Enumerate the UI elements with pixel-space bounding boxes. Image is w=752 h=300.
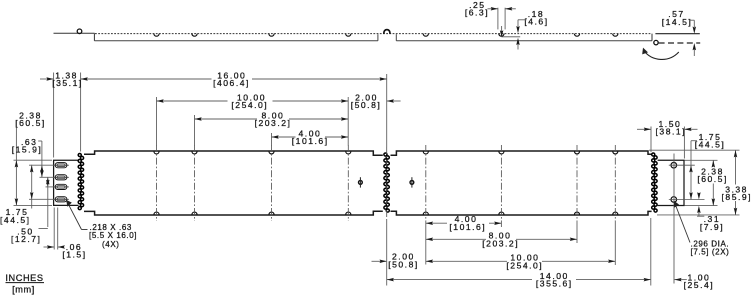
centerline middle joint through bar <box>386 147 388 220</box>
small rivet right of middle joint <box>410 177 414 187</box>
svg-text:[50.8]: [50.8] <box>388 259 419 269</box>
svg-text:[7.9]: [7.9] <box>700 222 724 232</box>
front view: right end plate outline <box>658 160 684 205</box>
svg-text:[60.5]: [60.5] <box>697 174 728 184</box>
dimension 2.00 [50.8] (bottom left) <box>372 260 387 262</box>
svg-text:[101.6]: [101.6] <box>449 222 486 232</box>
top view: right section left end stub <box>395 34 397 41</box>
front view: left hinge coil joint <box>78 153 83 209</box>
top view: middle joint knuckle arch <box>384 30 390 34</box>
front view: edge holes on bar top edge <box>154 151 618 154</box>
extension lines bar top/bottom to right <box>649 149 740 151</box>
extension line flange bottom (y=205.4) <box>14 204 53 206</box>
top view: left section right end stub <box>377 34 379 41</box>
dimension 4.00 [101.6] line <box>272 136 296 138</box>
svg-text:[85.9]: [85.9] <box>722 192 752 202</box>
svg-text:[355.6]: [355.6] <box>536 279 573 289</box>
extension line x=651 (right bar end, top) <box>650 127 652 153</box>
svg-text:[35.1]: [35.1] <box>52 78 83 88</box>
svg-text:[101.6]: [101.6] <box>292 136 329 146</box>
dimension 1.75 [44.5] (slot1-slot4) <box>31 165 33 209</box>
top view: hidden lance edge <box>502 36 521 38</box>
top view: screw head bumps on top edge <box>154 34 618 37</box>
front view: edge holes on bar bottom edge <box>154 212 618 215</box>
slot 4 <box>54 197 69 202</box>
svg-text:[254.0]: [254.0] <box>231 100 268 110</box>
extension line flange top (y=160.2) <box>14 159 53 161</box>
top view: strip bottom edge right section <box>396 40 652 42</box>
front view: main bar section 2 bottom edge <box>391 211 652 215</box>
front view: left flange outline <box>54 160 79 205</box>
dimension 8.00 [203.2] line <box>195 118 258 120</box>
slot size leader note .218 X .63 <box>67 202 81 229</box>
right end plate hole lower (.296 DIA) <box>671 197 677 203</box>
svg-text:[50.8]: [50.8] <box>351 100 382 110</box>
dimension .57 arrows <box>693 20 695 27</box>
front view: main bar section 2 top edge <box>391 151 652 155</box>
svg-text:[254.0]: [254.0] <box>506 260 543 270</box>
svg-text:[60.5]: [60.5] <box>15 118 46 128</box>
top view: right hinge pivot circle <box>654 40 658 44</box>
top view: left flange arm line <box>54 32 95 34</box>
top view: strip left end edge <box>93 33 95 40</box>
svg-text:[44.5]: [44.5] <box>0 215 31 225</box>
front view: main bar section 1 top edge <box>84 151 383 155</box>
dimension 10.00 [254.0] (bottom) <box>426 260 507 262</box>
dimension 1.75 [44.5] (plate holes spacing) <box>690 141 692 200</box>
front view: middle hinge coil joint <box>384 153 389 212</box>
top view: strip hidden top edge (dashed) <box>95 33 651 35</box>
top view: folded-out plate top edge <box>655 33 699 35</box>
extension line middle joint below bar <box>386 220 388 286</box>
dimension .31 [7.9] <box>698 193 700 196</box>
extension line slot4 centerline <box>29 198 55 200</box>
top view: strip right end edge <box>651 34 653 41</box>
svg-text:[14.5]: [14.5] <box>662 17 693 27</box>
plate holes vertical centerline / 1.00 extension <box>673 154 675 284</box>
dimension 1.38 [35.1] <box>40 78 53 80</box>
dimension .18 arrows <box>517 20 519 27</box>
extension line middle joint (x=386.7) above bar <box>386 74 388 147</box>
svg-text:[mm]: [mm] <box>12 285 35 295</box>
extension line slot1 centerline <box>29 164 55 166</box>
dimension 10.00 [254.0] line <box>157 100 228 102</box>
svg-text:[44.5]: [44.5] <box>695 140 726 150</box>
dimension 2.38 [60.5] (plate height) <box>712 160 714 166</box>
dimension 8.00 [203.2] (bottom) <box>426 238 486 240</box>
dimension .06 [1.5] extension lines <box>53 208 55 250</box>
small rivet left of middle joint <box>359 177 363 187</box>
svg-text:[1.5]: [1.5] <box>62 250 86 260</box>
slot 3 <box>54 184 69 189</box>
svg-text:(4X): (4X) <box>102 240 120 249</box>
dimension 3.38 [85.9] (bar height) <box>735 150 737 184</box>
svg-text:[6.3]: [6.3] <box>465 7 489 17</box>
dimension 14.00 [355.6] <box>387 279 532 281</box>
svg-text:[4.6]: [4.6] <box>524 17 548 27</box>
svg-text:INCHES: INCHES <box>5 273 43 283</box>
dimension 4.00 [101.6] (bottom) <box>426 222 447 224</box>
slot 2 <box>54 175 69 180</box>
svg-text:[7.5] (2X): [7.5] (2X) <box>691 247 730 256</box>
dimension 16.00 [406.4] line <box>81 78 212 80</box>
extension lines below bar for right-bar holes <box>425 221 427 265</box>
dimension .50 [12.7] (slot2-slot3) <box>47 177 49 227</box>
hole vertical centerlines <box>157 145 616 221</box>
extension line left flange left edge (x=53.6) <box>53 73 55 158</box>
top view: rotation direction arc arrow <box>644 50 679 59</box>
top view: left hinge knuckle circle <box>77 29 82 34</box>
top view: strip bottom edge left section <box>94 40 378 42</box>
extension lines above bar for holes <box>156 97 158 146</box>
dimension .25 outside arrows <box>488 8 498 10</box>
dimension .06 arrows <box>44 246 54 248</box>
svg-text:[203.2]: [203.2] <box>482 238 519 248</box>
right end plate hole upper (.296 DIA) <box>671 162 677 168</box>
svg-text:[12.7]: [12.7] <box>11 234 42 244</box>
svg-text:[38.1]: [38.1] <box>656 127 687 137</box>
front view: main bar section 1 bottom edge <box>84 211 383 215</box>
dimension .25 center pointer arrow <box>501 26 503 32</box>
svg-text:[25.4]: [25.4] <box>684 280 715 290</box>
extension line slot3 centerline <box>46 186 55 188</box>
extension line slot2 centerline <box>40 176 55 178</box>
svg-text:[406.4]: [406.4] <box>213 78 250 88</box>
extension line x=684.4 (plate right edge, top) <box>683 127 685 159</box>
hole diameter note .296 DIA [7.5] (2X) <box>675 205 690 243</box>
front view: right hinge coil joint <box>652 153 657 212</box>
slot 1 <box>54 163 69 168</box>
svg-text:[5.5 X 16.0]: [5.5 X 16.0] <box>89 231 137 240</box>
dimension 1.50 [38.1] <box>637 128 651 130</box>
extension lines plate top/bottom to right <box>685 159 718 161</box>
extension line left bar start (x=80.6) <box>80 73 82 152</box>
svg-text:[15.9]: [15.9] <box>12 144 43 154</box>
svg-text:[203.2]: [203.2] <box>255 118 292 128</box>
dimension 1.00 [25.4] <box>674 279 686 281</box>
lower hole horizontal centerline <box>669 199 705 201</box>
dimension .25 extension lines <box>497 8 499 30</box>
extension line right bar end (x=650.8) below <box>650 218 652 286</box>
top view: folded-out plate hidden bottom edge (dashed) <box>659 42 701 44</box>
upper hole horizontal centerline <box>669 164 695 166</box>
